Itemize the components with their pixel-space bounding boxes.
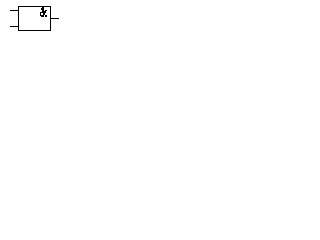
wire: input B (bottom left) <box>10 26 18 27</box>
wire: input A (top left) <box>10 10 18 11</box>
'&' function label of AND gate <box>40 7 47 17</box>
AND gate U1 body (IEC rectangular outline) <box>18 6 51 31</box>
wire: output (right) <box>51 18 59 19</box>
